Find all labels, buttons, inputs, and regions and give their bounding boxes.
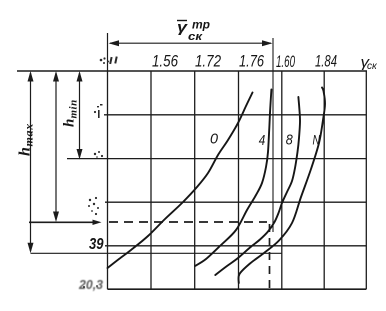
svg-text:h: h (17, 147, 34, 156)
svg-text:39: 39 (89, 236, 104, 253)
dimension arrowhead right (262, 40, 273, 46)
grid vertical line 7 (right edge) (365, 71, 367, 289)
curve N (238, 88, 325, 284)
grid horizontal line row 5 (105, 245, 366, 247)
svg-text:тр: тр (192, 18, 210, 32)
grid vertical line 2 (gamma=1.56) (150, 71, 152, 289)
dashed vertical reference line (269, 224, 271, 289)
smudged ordinate label at row 4 (89, 199, 91, 201)
svg-text:20,3: 20,3 (78, 277, 104, 292)
h_min measuring arrow shaft (79, 73, 81, 157)
svg-text:min: min (68, 99, 80, 118)
svg-text:1.72: 1.72 (195, 52, 221, 71)
h_max arrowhead down (28, 243, 34, 254)
grid horizontal line row 3 (h_min level, extended left) (67, 158, 366, 160)
svg-text:1.76: 1.76 (239, 52, 264, 71)
svg-text:0: 0 (210, 131, 219, 148)
svg-text:1.60: 1.60 (276, 52, 295, 71)
dimension arrowhead left (109, 40, 120, 46)
grid vertical line 4 (gamma=1.76) (238, 71, 240, 289)
svg-text:h: h (62, 119, 78, 127)
solid pointer line at dashed level (29, 221, 97, 223)
grid bottom line (108, 288, 367, 290)
h_min arrowhead up (77, 71, 83, 82)
dimension arrow line (gamma_sk_tr span) (110, 42, 271, 44)
svg-text:max: max (22, 123, 36, 146)
grid vertical line 1 (left edge, gamma=1.52) (107, 71, 109, 289)
middle arrowhead up (53, 71, 59, 82)
middle arrowhead down (53, 212, 59, 223)
h_min arrowhead down (77, 149, 83, 160)
smudged ordinate label 20,3 at bottom (78, 277, 104, 292)
top axis line (gamma_sk axis) (17, 70, 367, 72)
smudged ordinate label at row 2 (94, 111, 96, 113)
svg-text:N: N (313, 132, 321, 148)
middle measuring arrow shaft (55, 73, 57, 220)
h_max measuring arrow shaft (30, 73, 32, 251)
level line 39 (h_max level) (31, 252, 282, 254)
pointer arrowhead at dashed level line (93, 220, 102, 225)
grid vertical line 3 (gamma=1.72) (194, 71, 196, 289)
smudged axis label left of 1.56 (100, 59, 103, 62)
label h_max (rotated) (17, 123, 36, 156)
curve 8 (215, 97, 300, 275)
svg-text:4: 4 (259, 132, 266, 149)
grid horizontal line row 4 (105, 201, 366, 203)
grid vertical line 5 (gamma=1.80) (281, 71, 283, 289)
h_max arrowhead up (28, 71, 34, 82)
svg-text:1.56: 1.56 (152, 52, 178, 71)
smudged ordinate label at row 3 (94, 153, 96, 155)
svg-text:ск: ск (367, 61, 378, 72)
svg-text:ск: ск (188, 31, 204, 43)
grid horizontal line row 2 (104, 114, 366, 116)
label h_min (rotated) (62, 99, 80, 127)
svg-text:8: 8 (286, 132, 294, 149)
dashed horizontal reference line (109, 221, 267, 223)
curve 4 (195, 90, 271, 267)
svg-text:1.84: 1.84 (315, 52, 337, 71)
thin vertical marker line (gamma_sk_tr value) (272, 38, 274, 232)
curve 0 (108, 93, 253, 269)
grid vertical line 6 (gamma=1.84) (323, 71, 325, 289)
left terminator of dimension arrow (107, 33, 109, 71)
